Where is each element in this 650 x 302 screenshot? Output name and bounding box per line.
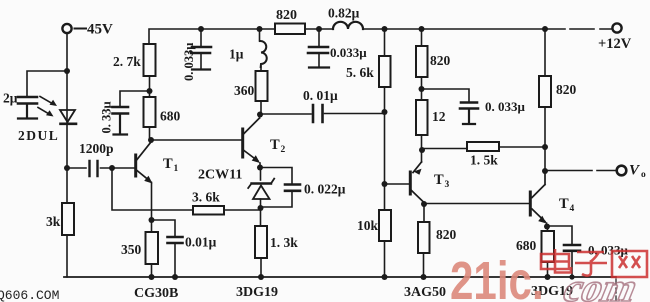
capacitor 0.033u second bbox=[318, 29, 320, 67]
svg-text:3AG50: 3AG50 bbox=[404, 285, 446, 300]
transistor T3 PNP bbox=[409, 172, 412, 194]
terminal -45V bbox=[62, 24, 71, 33]
watermark char zi bbox=[575, 252, 607, 276]
wire 2.7k to 680 bbox=[149, 76, 151, 97]
capacitor 1200p bbox=[67, 167, 112, 169]
svg-text:0.033μ: 0.033μ bbox=[330, 45, 367, 60]
terminal +12V bbox=[612, 23, 621, 32]
svg-text:2. 7k: 2. 7k bbox=[113, 54, 141, 69]
wire emitter node to bypass cap bbox=[151, 220, 175, 236]
watermark char wang bbox=[612, 251, 647, 277]
svg-text:1. 5k: 1. 5k bbox=[470, 153, 498, 168]
wire T4 emitter to 0.033u d bbox=[547, 226, 572, 244]
wire T3 base bbox=[385, 183, 411, 185]
resistor 1.5k bbox=[467, 142, 499, 151]
capacitor 0.033u d bbox=[564, 245, 580, 251]
svg-text:CG30B: CG30B bbox=[134, 286, 178, 301]
capacitor 2u bbox=[18, 97, 37, 104]
svg-text:1200p: 1200p bbox=[79, 141, 114, 156]
svg-text:3k: 3k bbox=[46, 214, 61, 229]
resistor 360 bbox=[260, 67, 262, 71]
capacitor 0.022u bbox=[285, 185, 300, 191]
watermark dianziwang bbox=[541, 249, 647, 277]
terminal Vo bbox=[617, 166, 627, 176]
wire bottom rail bbox=[64, 276, 616, 278]
svg-text:5. 6k: 5. 6k bbox=[346, 65, 374, 80]
svg-text:0.01μ: 0.01μ bbox=[185, 235, 217, 250]
capacitor 0.033u c bbox=[460, 103, 478, 109]
watermark 21ic bbox=[450, 251, 544, 302]
svg-text:0.82μ: 0.82μ bbox=[328, 6, 360, 21]
wire photodiode branch top bbox=[27, 71, 67, 96]
svg-text:360: 360 bbox=[234, 83, 255, 98]
svg-text:45V: 45V bbox=[87, 22, 113, 38]
capacitor 0.033u first bbox=[200, 29, 202, 69]
svg-text:1. 3k: 1. 3k bbox=[270, 235, 298, 250]
wire left vertical from -45V to bottom rail bbox=[66, 34, 68, 278]
inductor 0.82u bbox=[333, 22, 363, 29]
svg-text:2DUL: 2DUL bbox=[18, 128, 59, 143]
svg-text:21ic.: 21ic. bbox=[450, 251, 544, 302]
svg-text:T: T bbox=[270, 137, 280, 153]
wire feedback to 3.6k bbox=[112, 168, 259, 210]
zener 2CW11 bbox=[260, 167, 262, 180]
svg-text:T: T bbox=[163, 156, 173, 172]
wire T2 base bbox=[151, 139, 241, 141]
svg-text:T: T bbox=[434, 172, 444, 188]
wire T1 base bbox=[112, 167, 134, 169]
svg-text:1μ: 1μ bbox=[229, 47, 244, 62]
svg-text:o: o bbox=[641, 170, 646, 180]
wire T1 emitter down bbox=[151, 183, 153, 221]
svg-text:820: 820 bbox=[556, 82, 577, 97]
svg-text:2: 2 bbox=[281, 145, 286, 155]
svg-text:350: 350 bbox=[121, 242, 142, 257]
wire emitter row to 1.5k bbox=[422, 148, 467, 150]
capacitor 0.01u coupling bbox=[313, 105, 323, 122]
wire T4 base bbox=[424, 203, 529, 205]
svg-text:4: 4 bbox=[570, 204, 575, 214]
svg-text:0. 033μ: 0. 033μ bbox=[485, 99, 526, 114]
svg-text:2CW11: 2CW11 bbox=[198, 168, 242, 183]
resistor 2.7k bbox=[144, 44, 156, 76]
svg-text:10k: 10k bbox=[357, 218, 379, 233]
resistor 10k bbox=[384, 184, 386, 210]
capacitor 0.01u bypass bbox=[168, 237, 183, 243]
capacitor 0.33u bbox=[113, 107, 129, 114]
svg-text:680: 680 bbox=[160, 109, 181, 124]
svg-text:820: 820 bbox=[430, 53, 451, 68]
svg-text:820: 820 bbox=[276, 8, 297, 23]
photodiode 2DUL bbox=[60, 110, 75, 122]
resistor 1.3k bbox=[255, 226, 267, 258]
wire to 0.033u c bbox=[422, 89, 470, 102]
transistor T4 bbox=[529, 192, 532, 215]
svg-text:+12V: +12V bbox=[598, 36, 632, 52]
wire 680 to T1 collector node bbox=[149, 127, 151, 140]
svg-text:3DG19: 3DG19 bbox=[236, 285, 278, 300]
light arrow 2 bbox=[38, 108, 50, 115]
light arrow 1 bbox=[40, 97, 54, 105]
wire T2 collector node to 0.01u bbox=[260, 113, 384, 116]
resistor 820 a bbox=[421, 29, 423, 46]
svg-text:0. 33μ: 0. 33μ bbox=[100, 101, 114, 133]
transistor T1 bbox=[134, 155, 137, 176]
wire to Vo bbox=[545, 170, 616, 172]
svg-text:0. 01μ: 0. 01μ bbox=[303, 88, 338, 103]
svg-text:0. 033μ: 0. 033μ bbox=[182, 43, 196, 81]
svg-text:1: 1 bbox=[174, 164, 179, 174]
resistor 680 b bbox=[547, 226, 549, 231]
svg-text:3. 6k: 3. 6k bbox=[192, 190, 220, 205]
resistor 680 left bbox=[144, 97, 156, 127]
svg-text:3: 3 bbox=[445, 180, 450, 190]
resistor 350 bbox=[151, 220, 153, 232]
wire T2 emitter to 0.022u bbox=[260, 168, 292, 184]
resistor 3.6k bbox=[193, 206, 224, 215]
resistor 3k bbox=[62, 203, 74, 235]
resistor 820 top series bbox=[275, 24, 305, 35]
watermark com bbox=[557, 265, 646, 302]
resistor 5.6k bbox=[384, 29, 386, 56]
bottom right dashed artifact bbox=[615, 279, 617, 300]
wire to 0.33u bbox=[120, 91, 150, 106]
resistor 820 b bbox=[544, 29, 546, 76]
wire top rail bbox=[149, 29, 611, 44]
svg-text:12: 12 bbox=[432, 109, 446, 124]
svg-text:0. 022μ: 0. 022μ bbox=[304, 182, 346, 197]
svg-text:2μ: 2μ bbox=[3, 91, 18, 106]
resistor 12 bbox=[416, 100, 428, 135]
svg-text:V: V bbox=[629, 163, 641, 179]
transistor T2 bbox=[241, 129, 244, 157]
svg-text:820: 820 bbox=[436, 227, 457, 242]
svg-text:Q606.COM: Q606.COM bbox=[0, 288, 59, 302]
inductor 1u bbox=[259, 29, 261, 41]
resistor 820 c bbox=[423, 203, 425, 222]
svg-text:T: T bbox=[559, 196, 569, 212]
watermark char dian bbox=[541, 249, 571, 273]
